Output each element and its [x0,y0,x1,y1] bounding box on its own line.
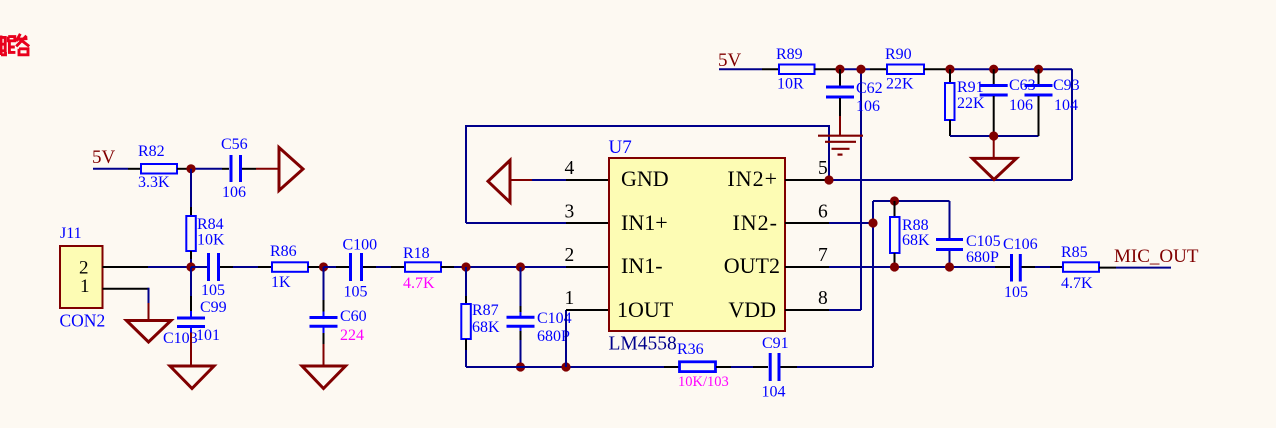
wire pin7 [785,266,829,268]
svg-text:C99: C99 [200,299,227,316]
capacitor C103 (series) [209,253,219,281]
wire C62 top stub [839,69,841,86]
svg-text:R85: R85 [1061,244,1088,261]
earth ground (C62) [818,136,863,155]
loop wire IN1+ bias [466,126,829,223]
resistor R18 [405,262,441,272]
svg-text:R84: R84 [197,216,224,233]
resistor R82 [141,164,177,174]
svg-text:10R: 10R [777,76,804,93]
junction node R91 top [945,65,954,74]
wire C93 top stub [1038,69,1040,84]
svg-text:68K: 68K [902,232,930,249]
svg-text:105: 105 [201,282,225,299]
svg-text:OUT2: OUT2 [724,253,780,278]
wire C106 to R85 [1022,266,1036,268]
wire pin8 [785,309,829,311]
svg-text:J11: J11 [60,225,82,242]
svg-text:C105: C105 [966,233,1001,250]
wire C103 to R86 [220,266,233,268]
svg-text:7: 7 [818,245,828,266]
svg-text:2: 2 [565,245,575,266]
capacitor C99 [177,318,205,327]
capacitor C106 [1012,254,1021,282]
wire R89 to R90 [815,68,841,70]
wire pin5 to divider [829,179,1072,181]
capacitor C63 [980,86,1008,96]
svg-text:U7: U7 [609,137,632,158]
svg-text:22K: 22K [957,95,985,112]
wire C99 to ground [190,327,192,333]
wire C60 to ground [323,327,325,333]
connector J11 [60,246,103,308]
svg-text:104: 104 [1054,97,1078,114]
junction node pin5 [824,175,833,184]
wire R91 top stub [949,69,951,83]
svg-text:R91: R91 [957,79,984,96]
svg-text:R18: R18 [403,245,430,262]
svg-text:10K/103: 10K/103 [678,374,729,390]
wire divider rail [950,68,1072,70]
wire R88 bottom stub [894,253,896,267]
svg-text:5V: 5V [92,147,116,168]
junction node C62 tap [835,65,844,74]
wire C56 to arrow [242,168,256,170]
svg-text:C56: C56 [221,136,248,153]
svg-text:IN1+: IN1+ [621,210,668,235]
wire pin1 vertical [565,310,567,367]
wire R18 to IN1- pin [441,266,454,268]
resistor R88 [890,217,900,253]
svg-text:CON2: CON2 [60,311,106,331]
resistor R90 [887,65,924,75]
svg-text:R86: R86 [270,243,297,260]
svg-text:R87: R87 [472,302,499,319]
resistor R84 [186,216,196,251]
junction node C93 top [1034,65,1043,74]
svg-text:104: 104 [762,384,786,401]
capacitor C60 [310,318,338,327]
junction node R88 top [890,196,899,205]
junction node R86/C100/C60 [319,262,328,271]
svg-text:GND: GND [621,166,669,191]
svg-text:3: 3 [565,202,575,223]
ground (C99) [170,366,214,389]
wire C63 top stub [993,69,995,84]
svg-text:IN1-: IN1- [621,253,663,278]
wire R85 to MIC_OUT [1099,267,1116,269]
svg-text:101: 101 [196,327,220,344]
capacitor C93 [1025,86,1053,96]
svg-text:1: 1 [80,276,90,297]
svg-text:106: 106 [856,98,880,115]
op-amp U7 body [609,158,785,331]
wire R86 to junction [308,266,324,268]
capacitor C62 [826,87,854,97]
wire down to C104 [520,267,522,306]
wire divider right drop [1071,69,1073,180]
svg-text:105: 105 [1004,284,1028,301]
wire J11 pin2 to junction [103,266,149,268]
wire R36 to C91 [716,366,731,368]
wire C93 bottom stub [1038,96,1040,136]
svg-text:4.7K: 4.7K [403,275,435,292]
resistor R86 [272,262,308,272]
wire divider bottom rail [950,135,1039,137]
resistor R36 [680,362,716,372]
svg-text:R82: R82 [138,143,165,160]
svg-text:C60: C60 [340,308,367,325]
wire to ground (divider) [993,136,995,158]
wire J11 pin1 to ground [103,288,149,290]
svg-text:5: 5 [818,158,828,179]
resistor R91 [945,83,955,120]
svg-text:4: 4 [565,158,575,179]
svg-text:1OUT: 1OUT [617,297,674,322]
ground (C60) [302,366,346,389]
svg-text:R89: R89 [776,46,803,63]
wire down to R87 [465,267,467,296]
svg-text:1K: 1K [271,274,291,291]
junction node C63 top [989,65,998,74]
svg-text:224: 224 [340,327,364,344]
junction node R18/R87/pin2 [461,262,470,271]
svg-text:106: 106 [222,184,246,201]
wire R90 to divider node [924,68,950,70]
capacitor C100 [351,253,362,281]
wire junction to C100 [324,266,337,268]
ground (divider) [972,158,1016,179]
junction node R88 bottom [890,262,899,271]
svg-text:4.7K: 4.7K [1061,275,1093,292]
svg-text:10K: 10K [197,232,225,249]
svg-text:3.3K: 3.3K [138,174,170,191]
wire feedback vertical [872,201,874,367]
svg-text:LM4558: LM4558 [609,334,677,355]
svg-text:R36: R36 [677,341,704,358]
svg-text:1: 1 [565,288,575,309]
wire R88 top stub [894,201,896,217]
svg-text:VDD: VDD [728,297,776,322]
wire junction to C103 [191,266,207,268]
svg-text:IN2+: IN2+ [727,166,778,191]
capacitor C104 [507,317,535,326]
wire R87 to bottom rail [465,339,467,350]
bottom rail wire [466,366,664,368]
off-page arrow right [279,148,303,191]
capacitor C56 [231,155,241,182]
ground (J11 pin1) [127,321,172,343]
wire R84 to junction [190,251,192,259]
wire R91 bottom stub [949,120,951,136]
wire junction down to C60 [323,267,325,300]
junction node C104 top [516,262,525,271]
svg-text:5V: 5V [718,50,742,71]
svg-text:MIC_OUT: MIC_OUT [1114,246,1199,267]
wire junction down to R84 [190,169,192,207]
wire VDD vertical feed [860,69,862,310]
svg-text:C91: C91 [762,335,789,352]
svg-text:C93: C93 [1053,77,1080,94]
wire 5V to R89 [719,68,762,70]
svg-text:C62: C62 [856,80,883,97]
wire C105 top stub [949,201,951,238]
wire R82 to junction [177,168,191,170]
svg-text:22K: 22K [886,76,914,93]
junction node J11/R84/C103/C99 [186,262,195,271]
wire pin4 [510,179,532,181]
resistor R85 [1063,262,1099,272]
wire C63 bottom stub [993,96,995,136]
off-page arrow left (pin4) [488,160,510,202]
svg-text:680P: 680P [966,249,999,266]
svg-text:C106: C106 [1003,236,1038,253]
junction node VDD feed [856,65,865,74]
svg-text:105: 105 [344,284,368,301]
svg-text:8: 8 [818,288,828,309]
wire C62 to earth [839,98,841,116]
wire pin1 stub [566,309,609,311]
junction node divider bottom [989,131,998,140]
wire pin3 [466,222,566,224]
wire 5V to R82 [93,168,128,170]
wire C100 to R18 [363,266,376,268]
svg-text:68K: 68K [472,319,500,336]
wire R88/C105 top rail [873,200,950,202]
wire C91 to feedback vertical [781,366,798,368]
svg-text:C103: C103 [163,330,198,347]
svg-text:R90: R90 [885,46,912,63]
junction node pin6/feedback [868,218,877,227]
wire pin5 [785,179,829,181]
junction node C104 bottom [516,362,525,371]
junction node R82/C56/R84 [186,164,195,173]
title text 电路 (clipped at left edge) [0,34,29,55]
wire pin6 [785,222,829,224]
wire C104 to bottom rail [520,327,522,331]
resistor R87 [461,304,471,339]
resistor R89 [779,65,815,75]
wire C105 bottom stub [949,251,951,267]
svg-text:6: 6 [818,202,828,223]
capacitor C105 [936,240,963,250]
junction node pin1 vertical [561,362,570,371]
capacitor C91 [770,353,779,381]
junction node C105 bottom [945,262,954,271]
wire junction to C56 [191,168,222,170]
wire junction down to C99 [190,267,192,296]
svg-text:IN2-: IN2- [732,210,778,235]
svg-text:C100: C100 [343,237,378,254]
svg-text:106: 106 [1009,97,1033,114]
